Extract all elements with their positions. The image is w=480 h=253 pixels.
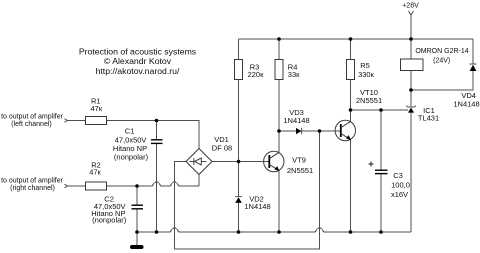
svg-text:47к: 47к — [89, 168, 101, 177]
svg-text:1N4148: 1N4148 — [244, 202, 270, 211]
svg-text:C1: C1 — [125, 127, 135, 136]
svg-text:330к: 330к — [358, 70, 375, 79]
svg-text:33к: 33к — [288, 70, 300, 79]
svg-text:+28V: +28V — [402, 3, 419, 10]
svg-text:47к: 47к — [90, 104, 102, 113]
svg-text:R5: R5 — [360, 61, 370, 70]
svg-text:to output of amplifer: to output of amplifer — [1, 177, 64, 184]
svg-text:1N4148: 1N4148 — [453, 100, 479, 109]
svg-text:2N5551: 2N5551 — [287, 166, 313, 175]
svg-text:(nonpolar): (nonpolar) — [92, 216, 127, 225]
svg-text:220к: 220к — [248, 70, 265, 79]
svg-text:100,0: 100,0 — [391, 181, 410, 190]
svg-text:C3: C3 — [393, 171, 403, 180]
svg-text:TL431: TL431 — [418, 114, 439, 123]
svg-text:to output of amplifer: to output of amplifer — [1, 113, 64, 120]
svg-text:VT9: VT9 — [292, 156, 306, 165]
svg-text:(nonpolar): (nonpolar) — [114, 153, 149, 162]
svg-text:x16V: x16V — [391, 190, 408, 199]
svg-text:(right channel): (right channel) — [10, 185, 55, 192]
svg-text:© Alexandr Kotov: © Alexandr Kotov — [104, 56, 172, 66]
svg-text:OMRON G2R-14: OMRON G2R-14 — [415, 48, 468, 55]
svg-text:Protection of acoustic systems: Protection of acoustic systems — [79, 47, 197, 57]
svg-text:2N5551: 2N5551 — [356, 96, 382, 105]
svg-text:(24V): (24V) — [433, 58, 450, 65]
svg-text:DF 08: DF 08 — [212, 144, 232, 153]
svg-text:1N4148: 1N4148 — [283, 116, 309, 125]
svg-text:(left channel): (left channel) — [11, 121, 51, 128]
svg-text:http://akotov.narod.ru/: http://akotov.narod.ru/ — [96, 66, 180, 76]
